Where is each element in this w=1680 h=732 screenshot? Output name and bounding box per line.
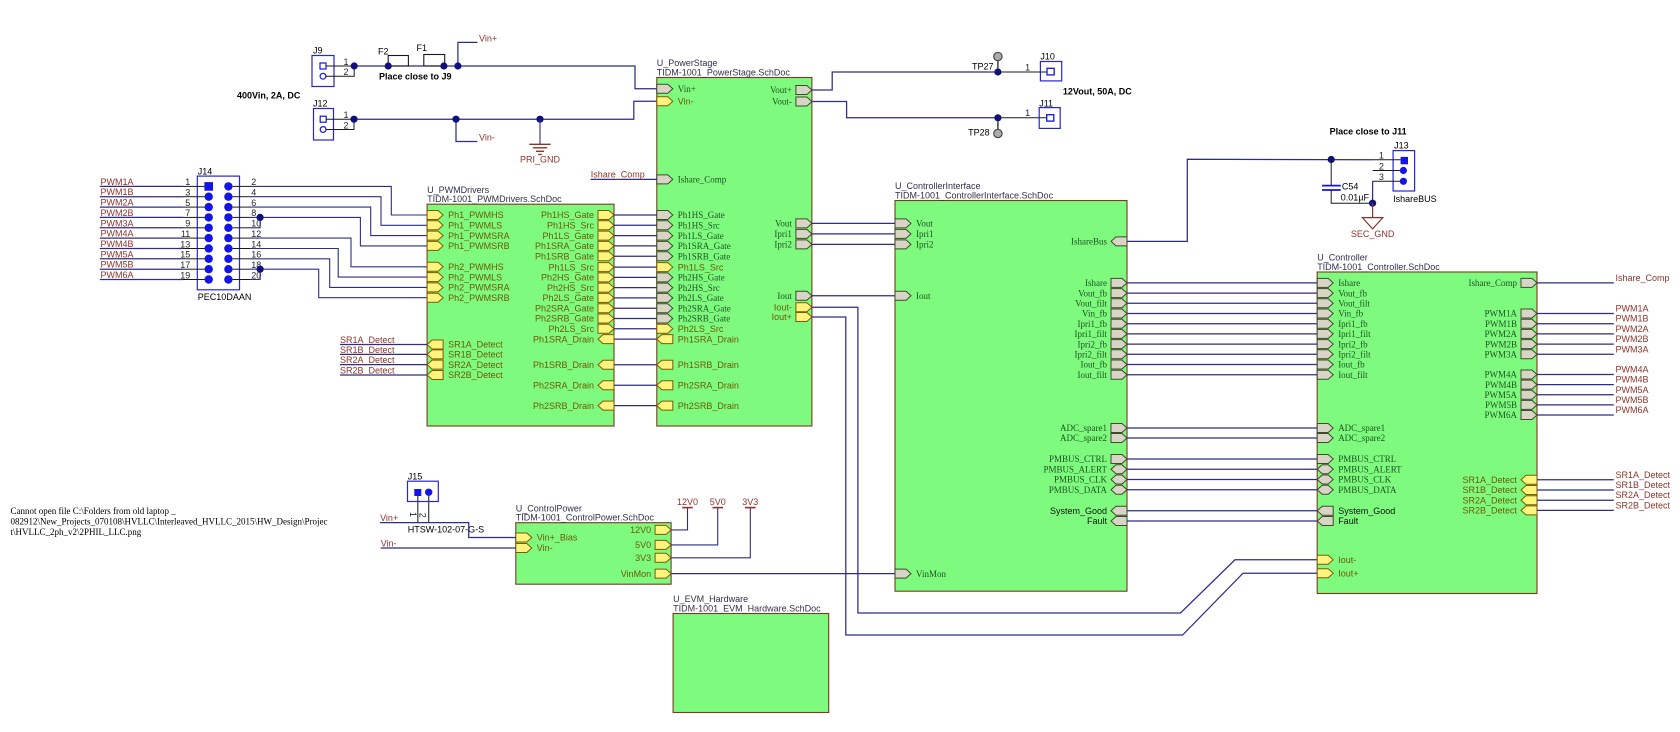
sheet entry Vin- <box>657 97 694 107</box>
svg-text:Ph1SRA_Gate: Ph1SRA_Gate <box>535 241 594 251</box>
wire net Ishare_Comp <box>591 178 657 180</box>
svg-text:Vout: Vout <box>916 219 933 229</box>
sheet entry SR1A_Detect (controller) <box>1462 475 1537 485</box>
svg-text:Ph1LS_Gate: Ph1LS_Gate <box>678 231 724 241</box>
wire net PMBUS_ALERT <box>1127 468 1317 470</box>
svg-text:Ishare_Comp: Ishare_Comp <box>1616 273 1670 283</box>
svg-text:Ipri2_filt: Ipri2_filt <box>1338 350 1371 360</box>
sheet symbol U_EVM_Hardware <box>673 594 829 712</box>
sheet entry PWM2B (controller) <box>1485 339 1537 349</box>
sheet entry Iout_filt (ctrl interface) <box>1078 370 1128 380</box>
wire net PMBUS_DATA <box>1127 489 1317 491</box>
wire net System_Good <box>1127 510 1317 512</box>
svg-text:1: 1 <box>1025 108 1030 118</box>
svg-text:Ph1SRA_Gate: Ph1SRA_Gate <box>678 241 731 251</box>
svg-text:PWM5B: PWM5B <box>1485 400 1517 410</box>
wire net Ipri2_fb <box>1127 343 1317 345</box>
wire net Ph2SRA_Drain <box>614 384 657 386</box>
svg-text:Ipri2: Ipri2 <box>774 240 792 250</box>
wire J14 to Ph1_PWMSRA <box>240 206 251 208</box>
svg-text:Ishare_Comp: Ishare_Comp <box>1469 278 1518 288</box>
svg-text:Vout+: Vout+ <box>770 85 792 95</box>
svg-text:Ipri2_fb: Ipri2_fb <box>1338 339 1368 349</box>
svg-text:ADC_spare2: ADC_spare2 <box>1060 433 1107 443</box>
svg-text:Iout+: Iout+ <box>772 312 792 322</box>
sheet entry SR2B_Detect <box>427 370 503 380</box>
svg-text:Ph1HS_Gate: Ph1HS_Gate <box>541 210 594 220</box>
wire net Vout <box>812 222 895 224</box>
sheet entry Iout_filt (controller) <box>1317 370 1368 380</box>
svg-text:3: 3 <box>1379 172 1384 182</box>
wire net Ph2HS_Src <box>614 287 657 289</box>
svg-text:PWM6A: PWM6A <box>101 270 134 280</box>
sheet entry Ph1SRA_Drain (drivers) <box>533 334 614 344</box>
wire net Ipri1_filt <box>1127 333 1317 335</box>
capacitor C54 <box>1322 160 1373 204</box>
wire net Ishare <box>1127 282 1317 284</box>
sheet entry Ph2_PWMLS <box>427 272 502 282</box>
sheet entry VinMon (ctrl interface) <box>895 569 946 579</box>
sheet entry Ph2LS_Src (power stage) <box>657 324 724 334</box>
sheet entry Ishare (controller) <box>1317 278 1360 288</box>
sheet entry Ipri1_filt (controller) <box>1317 329 1371 339</box>
wire net Ipri1_fb <box>1127 323 1317 325</box>
wire net PWM2B (right) <box>1537 343 1614 345</box>
wire net PWM1B to J14 pin 3 <box>100 196 183 198</box>
wire J14 to Ph2_PWMLS <box>240 248 251 250</box>
svg-text:t\HVLLC_2ph_v2\2PHIL_LLC.png: t\HVLLC_2ph_v2\2PHIL_LLC.png <box>11 527 142 537</box>
sheet entry PMBUS_DATA (ctrl interface) <box>1049 485 1127 495</box>
svg-text:Ph1_PWMSRA: Ph1_PWMSRA <box>448 231 510 241</box>
sheet entry Ishare_Comp <box>657 175 727 185</box>
J14 pin 17 <box>205 265 213 273</box>
svg-text:Ipri2_filt: Ipri2_filt <box>1075 350 1108 360</box>
svg-text:SR2B_Detect: SR2B_Detect <box>1616 500 1671 510</box>
sheet symbol U_ControllerInterface <box>895 181 1127 591</box>
wire net PWM6A (right) <box>1537 414 1614 416</box>
wire net SR1A_Detect <box>340 344 427 346</box>
svg-text:SR2A_Detect: SR2A_Detect <box>448 360 503 370</box>
svg-text:Ph2SRA_Gate: Ph2SRA_Gate <box>535 303 594 313</box>
sheet entry PWM4B (controller) <box>1485 380 1537 390</box>
svg-text:Ph2HS_Gate: Ph2HS_Gate <box>541 273 594 283</box>
junction Vin- stub <box>452 116 459 123</box>
sheet entry Iout (ctrl interface) <box>895 291 931 301</box>
svg-text:Vin_fb: Vin_fb <box>1082 309 1107 319</box>
sheet entry Vout (ctrl interface) <box>895 219 933 229</box>
svg-text:Ph2_PWMSRA: Ph2_PWMSRA <box>448 283 510 293</box>
svg-text:12Vout, 50A, DC: 12Vout, 50A, DC <box>1063 86 1132 96</box>
wire net PWM4A (right) <box>1537 374 1614 376</box>
wire net Ph1HS_Src <box>614 224 657 226</box>
svg-text:5V0: 5V0 <box>635 540 651 550</box>
sheet entry Ph2LS_Gate (power stage) <box>657 293 724 303</box>
svg-text:PMBUS_ALERT: PMBUS_ALERT <box>1338 465 1402 475</box>
wire net Vin+ to Vin+_Bias <box>380 523 516 538</box>
J14 pin 14 <box>224 244 232 252</box>
svg-text:Ipri1_fb: Ipri1_fb <box>1078 319 1108 329</box>
svg-text:System_Good: System_Good <box>1050 506 1107 516</box>
junction F2 left <box>385 62 392 69</box>
svg-text:Iout_filt: Iout_filt <box>1338 370 1368 380</box>
svg-text:SR1B_Detect: SR1B_Detect <box>340 345 395 355</box>
svg-text:Ipri2_fb: Ipri2_fb <box>1078 339 1108 349</box>
J14 pin 20 <box>224 275 232 283</box>
wire net SR1A_Detect (right) <box>1537 479 1614 481</box>
wire net PWM2A to J14 pin 5 <box>100 206 183 208</box>
svg-text:Ipri1_filt: Ipri1_filt <box>1075 329 1108 339</box>
sheet entry Fault (ctrl interface) <box>1087 516 1127 526</box>
sheet entry Ipri2 (power stage) <box>774 240 812 250</box>
wire net Ph2HS_Gate <box>614 276 657 278</box>
wire net SR2A_Detect <box>340 364 427 366</box>
sheet entry Ph1SRA_Gate (power stage) <box>657 241 731 251</box>
wire net SR2B_Detect (right) <box>1537 509 1614 511</box>
wire J14 to Ph1_PWMLS <box>240 196 251 198</box>
wire net IshareBus <box>1127 159 1373 241</box>
wire net Ph2SRB_Gate <box>614 318 657 320</box>
svg-text:Ishare: Ishare <box>1085 278 1107 288</box>
svg-text:PWM4B: PWM4B <box>1485 380 1517 390</box>
wire net PMBUS_CLK <box>1127 479 1317 481</box>
svg-text:SR2B_Detect: SR2B_Detect <box>340 366 395 376</box>
svg-text:2: 2 <box>343 120 348 130</box>
sheet entry Fault (controller) <box>1317 516 1359 526</box>
J14 pin 7 <box>205 213 213 221</box>
wire J14 to Ph2_PWMSRB <box>240 268 251 270</box>
svg-text:Iout+: Iout+ <box>1338 568 1358 578</box>
J14 pin 19 <box>205 275 213 283</box>
sheet entry Vout_fb (ctrl interface) <box>1078 288 1127 298</box>
ground PRI_GND <box>520 119 561 164</box>
svg-text:Ipri1_fb: Ipri1_fb <box>1338 319 1368 329</box>
svg-text:Vout_fb: Vout_fb <box>1078 288 1107 298</box>
wire J14 to Ph1_PWMSRB <box>240 216 251 218</box>
svg-text:1: 1 <box>1025 62 1030 72</box>
svg-text:Ph1_PWMSRB: Ph1_PWMSRB <box>448 241 510 251</box>
svg-text:Ipri1: Ipri1 <box>916 229 934 239</box>
sheet entry Vin_fb (ctrl interface) <box>1082 309 1127 319</box>
sheet entry Vout- <box>772 97 812 107</box>
wire net Ph1SRA_Gate <box>614 245 657 247</box>
svg-text:15: 15 <box>180 250 190 260</box>
J10 pin 1 <box>1047 68 1054 75</box>
junction SEC_GND <box>1369 200 1376 207</box>
svg-text:3V3: 3V3 <box>635 553 651 563</box>
svg-text:Ph2HS_Gate: Ph2HS_Gate <box>678 273 725 283</box>
svg-text:1: 1 <box>343 57 348 67</box>
wire net PWM2A (right) <box>1537 333 1614 335</box>
wire net Ph1LS_Gate <box>614 235 657 237</box>
wire J14 to Ph1_PWMHS <box>240 185 251 187</box>
svg-text:PMBUS_DATA: PMBUS_DATA <box>1049 485 1108 495</box>
svg-text:PWM1A: PWM1A <box>101 177 134 187</box>
J14 pin 12 <box>224 234 232 242</box>
junction J12 pins <box>350 116 357 123</box>
sheet entry Ph2HS_Gate (power stage) <box>657 273 725 283</box>
svg-text:PWM2B: PWM2B <box>101 208 134 218</box>
svg-text:Fault: Fault <box>1338 516 1359 526</box>
svg-text:Ph2HS_Src: Ph2HS_Src <box>547 283 595 293</box>
svg-text:4: 4 <box>251 188 256 198</box>
svg-text:Ph2LS_Src: Ph2LS_Src <box>548 324 594 334</box>
junction F1 right <box>440 62 447 69</box>
wire net Iout <box>812 295 895 297</box>
svg-text:Ph2SRB_Drain: Ph2SRB_Drain <box>678 401 739 411</box>
svg-text:TIDM-1001_PWMDrivers.SchDoc: TIDM-1001_PWMDrivers.SchDoc <box>427 194 562 204</box>
sheet entry PWM3A (controller) <box>1484 350 1537 360</box>
wire net Vout_fb <box>1127 292 1317 294</box>
connector J9 <box>312 46 354 87</box>
svg-text:PWM3A: PWM3A <box>101 218 134 228</box>
junction TP28 <box>994 114 1001 121</box>
sheet entry Ph2_PWMHS <box>427 262 504 272</box>
junction TP27 <box>994 68 1001 75</box>
wire J14 pin 20 stub <box>240 279 251 281</box>
wire net PWM4B to J14 pin 13 <box>100 248 183 250</box>
sheet entry Vout+ <box>770 85 812 95</box>
sheet entry Ipri1 (power stage) <box>774 229 812 239</box>
svg-text:Ph1_PWMHS: Ph1_PWMHS <box>448 210 504 220</box>
sheet entry Ph1SRB_Gate (power stage) <box>657 251 731 261</box>
J14 pin 1 (square) <box>204 182 213 191</box>
sheet entry Ph2HS_Gate (drivers) <box>541 273 614 283</box>
sheet entry 3V3 (control power) <box>635 553 671 563</box>
sheet entry PMBUS_DATA (controller) <box>1317 485 1397 495</box>
svg-text:7: 7 <box>185 208 190 218</box>
sheet entry Ipri1_fb (ctrl interface) <box>1078 319 1128 329</box>
wire net ADC_spare1 <box>1127 427 1317 429</box>
sheet entry PMBUS_CTRL (controller) <box>1317 454 1396 464</box>
svg-text:SR1A_Detect: SR1A_Detect <box>340 335 395 345</box>
svg-text:Ph2SRA_Drain: Ph2SRA_Drain <box>678 381 739 391</box>
svg-text:PWM6A: PWM6A <box>1616 405 1649 415</box>
svg-text:3: 3 <box>185 188 190 198</box>
svg-text:Ph2HS_Src: Ph2HS_Src <box>678 283 720 293</box>
svg-text:Vin_fb: Vin_fb <box>1338 309 1363 319</box>
svg-text:PWM5A: PWM5A <box>1484 390 1517 400</box>
wire net Ph2LS_Gate <box>614 297 657 299</box>
svg-text:Vin+: Vin+ <box>678 84 696 94</box>
svg-text:Vout_filt: Vout_filt <box>1338 299 1370 309</box>
sheet entry Ph2SRA_Gate (drivers) <box>535 303 614 313</box>
svg-text:J10: J10 <box>1040 52 1055 62</box>
sheet symbol U_Controller <box>1317 253 1537 594</box>
svg-text:C54: C54 <box>1342 181 1359 191</box>
wire net Ph2LS_Src <box>614 328 657 330</box>
svg-text:Ishare_Comp: Ishare_Comp <box>678 175 727 185</box>
sheet entry Ph1SRB_Drain (drivers) <box>533 360 614 370</box>
connector J11 <box>1001 98 1060 128</box>
sheet entry PMBUS_ALERT (controller) <box>1317 465 1402 475</box>
wire J14 to Ph2_PWMSRA <box>240 258 251 260</box>
wire net Ph2SRA_Gate <box>614 307 657 309</box>
svg-text:12V0: 12V0 <box>630 525 651 535</box>
svg-text:SR1A_Detect: SR1A_Detect <box>1462 475 1517 485</box>
svg-text:Ph1SRA_Drain: Ph1SRA_Drain <box>678 334 739 344</box>
svg-text:PWM3A: PWM3A <box>1484 350 1517 360</box>
connector J12 <box>313 99 354 141</box>
sheet entry Vout_filt (ctrl interface) <box>1075 299 1127 309</box>
wire net PWM1B (right) <box>1537 323 1614 325</box>
J14 pin 11 <box>205 234 213 242</box>
sheet entry Ipri1_filt (ctrl interface) <box>1075 329 1128 339</box>
sheet entry Ph2LS_Gate (drivers) <box>542 293 614 303</box>
sheet entry Ipri2 (ctrl interface) <box>895 240 934 250</box>
svg-text:PWM4A: PWM4A <box>101 229 134 239</box>
svg-text:Ipri1: Ipri1 <box>774 229 792 239</box>
svg-text:Vout-: Vout- <box>772 97 792 107</box>
sheet entry Ipri1 (ctrl interface) <box>895 229 934 239</box>
sheet entry Ph2SRA_Drain (drivers) <box>533 381 614 391</box>
svg-text:17: 17 <box>180 260 190 270</box>
svg-text:HTSW-102-07-G-S: HTSW-102-07-G-S <box>408 524 484 534</box>
sheet entry SR2B_Detect (controller) <box>1462 506 1537 516</box>
svg-text:Iout-: Iout- <box>1338 555 1356 565</box>
svg-text:Ph2LS_Gate: Ph2LS_Gate <box>542 293 594 303</box>
wire net SR1B_Detect (right) <box>1537 489 1614 491</box>
connector J15 <box>408 472 485 535</box>
svg-text:Vout_fb: Vout_fb <box>1338 288 1367 298</box>
wire net Vout_filt <box>1127 302 1317 304</box>
power port 5V0 <box>671 497 726 545</box>
sheet entry Ipri2_filt (ctrl interface) <box>1075 350 1128 360</box>
svg-text:TIDM-1001_PowerStage.SchDoc: TIDM-1001_PowerStage.SchDoc <box>657 68 791 78</box>
svg-text:PWM4A: PWM4A <box>1484 370 1517 380</box>
svg-text:J14: J14 <box>198 166 213 176</box>
svg-text:Iout_fb: Iout_fb <box>1338 360 1365 370</box>
sheet entry ADC_spare1 (controller) <box>1317 423 1385 433</box>
J15 pin 1 (square) <box>414 489 421 496</box>
J14 pin 10 <box>224 224 232 232</box>
sheet entry Iout (power stage) <box>777 291 812 301</box>
svg-text:6: 6 <box>251 198 256 208</box>
note: missing image placeholder text <box>11 506 328 537</box>
junction J9 pins <box>351 62 358 69</box>
wire net Ph1SRB_Drain <box>614 364 657 366</box>
svg-text:Ph2SRB_Gate: Ph2SRB_Gate <box>678 314 731 324</box>
sheet entry SR2A_Detect <box>427 360 503 370</box>
J14 pin 16 <box>224 255 232 263</box>
J14 pin 15 <box>205 255 213 263</box>
svg-text:J9: J9 <box>313 46 323 56</box>
sheet entry Ishare_Comp (controller) <box>1469 278 1538 288</box>
svg-text:Vin-: Vin- <box>537 543 553 553</box>
J12 pin 2 <box>320 127 326 133</box>
wire net Vin- to control power <box>381 547 516 549</box>
svg-text:PWM1A: PWM1A <box>1484 309 1517 319</box>
svg-text:ADC_spare1: ADC_spare1 <box>1338 423 1385 433</box>
svg-text:0.01µF: 0.01µF <box>1341 193 1370 203</box>
wire net PWM1A to J14 pin 1 <box>100 185 183 187</box>
svg-text:Place close to J9: Place close to J9 <box>379 72 452 82</box>
svg-text:3V3: 3V3 <box>742 497 758 507</box>
wire net Ph1HS_Gate <box>614 214 657 216</box>
svg-text:PWM2A: PWM2A <box>1484 329 1517 339</box>
wire net SR1B_Detect <box>340 353 427 355</box>
sheet entry Ipri2_fb (controller) <box>1317 339 1368 349</box>
svg-text:19: 19 <box>180 270 190 280</box>
svg-text:Ph1SRB_Gate: Ph1SRB_Gate <box>678 251 731 261</box>
svg-text:Ph1SRA_Drain: Ph1SRA_Drain <box>533 334 594 344</box>
sheet entry PMBUS_ALERT (ctrl interface) <box>1044 465 1127 475</box>
svg-text:9: 9 <box>185 219 190 229</box>
J14 pin 6 <box>224 203 232 211</box>
sheet entry Iout+ (controller) <box>1317 568 1358 578</box>
sheet entry System_Good (ctrl interface) <box>1050 506 1127 516</box>
sheet entry Ph1_PWMSRA <box>427 231 510 241</box>
wire net PWM5A (right) <box>1537 394 1614 396</box>
svg-text:SEC_GND: SEC_GND <box>1351 229 1395 239</box>
sheet entry Ph2SRB_Drain (power stage) <box>657 401 739 411</box>
sheet entry Ph1SRB_Drain (power stage) <box>657 360 739 370</box>
sheet entry Ph1HS_Src (drivers) <box>547 221 614 231</box>
power port 3V3 <box>671 497 758 558</box>
sheet entry Iout_fb (ctrl interface) <box>1081 360 1128 370</box>
svg-text:Ph2SRA_Drain: Ph2SRA_Drain <box>533 381 594 391</box>
sheet entry 5V0 (control power) <box>635 540 671 550</box>
svg-text:PWM4A: PWM4A <box>1616 365 1649 375</box>
svg-text:2: 2 <box>418 513 428 518</box>
sheet entry PMBUS_CLK (ctrl interface) <box>1054 475 1127 485</box>
J9 pin 1 <box>320 63 326 69</box>
wire Vout- to J11 <box>812 102 998 118</box>
svg-text:PMBUS_CTRL: PMBUS_CTRL <box>1338 454 1396 464</box>
wire net Ishare_Comp (right) <box>1537 282 1614 284</box>
sheet entry Ph2SRB_Gate (drivers) <box>535 314 614 324</box>
sheet entry Ishare (ctrl interface) <box>1085 278 1127 288</box>
svg-text:Iout_filt: Iout_filt <box>1078 370 1108 380</box>
svg-text:ADC_spare2: ADC_spare2 <box>1338 433 1385 443</box>
J13 pin 3 <box>1400 178 1407 185</box>
svg-text:Fault: Fault <box>1087 516 1108 526</box>
svg-text:PMBUS_CLK: PMBUS_CLK <box>1338 475 1392 485</box>
sheet entry Ph1SRA_Drain (power stage) <box>657 334 739 344</box>
svg-text:Ph2_PWMLS: Ph2_PWMLS <box>448 272 502 282</box>
svg-text:11: 11 <box>181 229 190 239</box>
svg-text:1: 1 <box>185 177 190 187</box>
junction J14 pin18/pin20 <box>257 266 264 273</box>
sheet entry Ph1_PWMHS <box>427 210 504 220</box>
J15 pin 2 <box>425 489 432 496</box>
sheet entry Vout (power stage) <box>775 219 812 229</box>
svg-text:8: 8 <box>251 208 256 218</box>
wire net PWM5A to J14 pin 15 <box>100 258 183 260</box>
wire net Ipri2_filt <box>1127 353 1317 355</box>
sheet entry Ph2HS_Src (power stage) <box>657 283 720 293</box>
svg-text:ADC_spare1: ADC_spare1 <box>1060 423 1107 433</box>
svg-text:Ph2LS_Src: Ph2LS_Src <box>678 324 724 334</box>
sheet symbol U_PWMDrivers <box>427 185 614 426</box>
J14 pin 8 <box>224 213 232 221</box>
svg-text:1: 1 <box>343 110 348 120</box>
J14 pin 13 <box>205 244 213 252</box>
svg-text:Ph1LS_Src: Ph1LS_Src <box>548 262 594 272</box>
J9 pin 2 <box>320 73 326 79</box>
svg-text:PWM2B: PWM2B <box>1485 339 1517 349</box>
svg-text:PWM2A: PWM2A <box>1616 324 1649 334</box>
svg-text:PMBUS_CLK: PMBUS_CLK <box>1054 475 1108 485</box>
sheet entry ADC_spare2 (ctrl interface) <box>1060 433 1127 443</box>
svg-text:SR2A_Detect: SR2A_Detect <box>1462 495 1517 505</box>
wire Vin- J12 to U_PowerStage <box>354 101 657 119</box>
svg-text:1: 1 <box>1379 151 1384 161</box>
wire net PWM5B to J14 pin 17 <box>100 268 183 270</box>
sheet entry PMBUS_CLK (controller) <box>1317 475 1392 485</box>
svg-text:Ipri2: Ipri2 <box>916 240 934 250</box>
svg-text:400Vin, 2A, DC: 400Vin, 2A, DC <box>237 90 301 100</box>
sheet entry IshareBus <box>1071 237 1127 247</box>
